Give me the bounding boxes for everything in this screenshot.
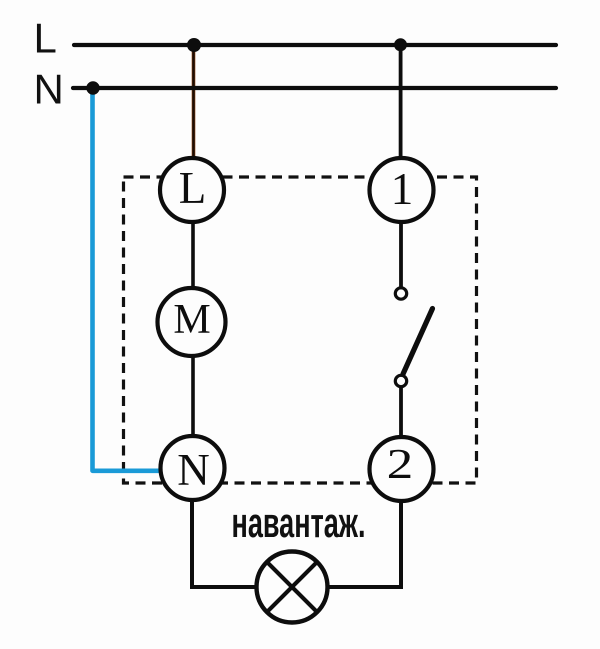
svg-text:M: M xyxy=(173,297,210,343)
wire (N rail) xyxy=(73,86,556,90)
svg-text:L: L xyxy=(34,15,57,62)
node junction on L rail above terminal L xyxy=(187,38,201,52)
svg-text:2: 2 xyxy=(387,441,414,487)
svg-text:1: 1 xyxy=(391,164,414,214)
wire terminal L to terminal M xyxy=(191,220,195,290)
wire (L rail) xyxy=(74,43,556,47)
terminal N xyxy=(161,436,225,500)
node junction on N rail above blue wire xyxy=(86,81,99,94)
terminal M xyxy=(158,288,226,356)
dashed enclosure (switch body outline) xyxy=(124,177,477,483)
wire terminal 1 to switch contact xyxy=(399,222,403,287)
node junction on L rail above terminal 1 xyxy=(394,38,407,51)
wire (blue neutral wire from N rail to terminal N) xyxy=(93,93,161,471)
wire terminal M to terminal N xyxy=(191,355,195,440)
svg-text:навантаж.: навантаж. xyxy=(232,499,366,546)
wire (L rail to switch terminal 1) xyxy=(399,47,403,165)
svg-text:L: L xyxy=(179,163,207,213)
switch contact (bottom open circle) xyxy=(395,375,406,386)
terminal 1 xyxy=(370,158,434,222)
terminal 2 xyxy=(370,437,434,501)
lamp (load) xyxy=(257,552,328,623)
switch lever xyxy=(403,309,433,375)
svg-text:N: N xyxy=(34,66,64,113)
switch contact (top open circle) xyxy=(395,288,406,299)
svg-text:N: N xyxy=(177,445,210,495)
terminal L xyxy=(160,158,224,222)
wire (brown phase wire from L rail to terminal L) xyxy=(192,49,196,160)
wire terminal 2 down and to lamp xyxy=(329,500,401,587)
wire switch contact to terminal 2 xyxy=(399,387,403,437)
wire terminal N down and to lamp xyxy=(192,498,255,587)
